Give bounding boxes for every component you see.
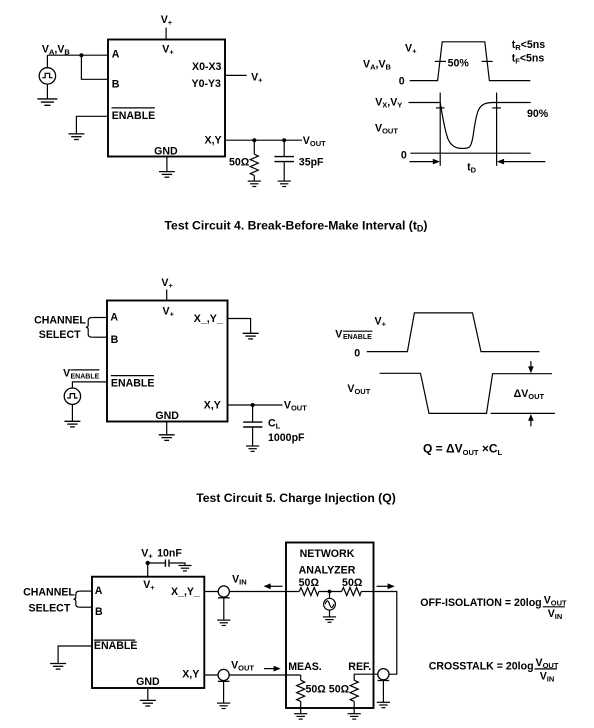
ground (source) bbox=[64, 421, 80, 427]
brace channel select bbox=[86, 318, 93, 338]
svg-text:SELECT: SELECT bbox=[39, 329, 81, 341]
delta arrow up bbox=[530, 420, 532, 426]
wire brace to pin B bbox=[92, 336, 107, 338]
VOUT waveform bbox=[380, 373, 552, 413]
wire V+ to box top bbox=[165, 28, 167, 40]
network analyzer box bbox=[286, 543, 374, 709]
svg-text:VOUT: VOUT bbox=[544, 594, 567, 607]
svg-text:B: B bbox=[112, 78, 120, 90]
svg-text:X,Y: X,Y bbox=[205, 135, 222, 147]
svg-text:ENABLE: ENABLE bbox=[71, 373, 100, 380]
wire GND pin bbox=[166, 422, 168, 435]
connector VOUT bbox=[218, 669, 230, 681]
input pulse waveform bbox=[410, 42, 531, 81]
signal arrow left bbox=[270, 585, 283, 587]
junction dot 35pF tap bbox=[282, 138, 286, 142]
ground (ENABLE) bbox=[50, 664, 66, 670]
svg-text:X_,Y_: X_,Y_ bbox=[194, 313, 223, 325]
ground (35pF) bbox=[278, 181, 291, 186]
wire GND pin bbox=[147, 688, 149, 700]
wire analyzer out to REF conn bbox=[374, 592, 397, 675]
svg-text:ENABLE: ENABLE bbox=[94, 640, 138, 652]
svg-text:VIN: VIN bbox=[232, 573, 247, 586]
pulse source V1 bbox=[46, 55, 48, 67]
wire junction to pin B bbox=[81, 55, 108, 79]
wire X_,Y_ pin to ground bbox=[228, 319, 251, 334]
svg-text:V+: V+ bbox=[251, 71, 263, 84]
svg-text:tD: tD bbox=[467, 161, 477, 174]
svg-text:0: 0 bbox=[354, 348, 360, 360]
svg-text:50%: 50% bbox=[448, 58, 470, 70]
ground (ENABLE) bbox=[68, 134, 84, 140]
svg-text:50Ω: 50Ω bbox=[299, 577, 320, 589]
brace channel select bbox=[73, 591, 80, 607]
wire source to pin A bbox=[47, 54, 108, 56]
resistor 50ohm REF bbox=[354, 674, 378, 680]
svg-text:GND: GND bbox=[136, 676, 160, 688]
svg-text:VOUT: VOUT bbox=[347, 383, 370, 396]
ground (sine source) bbox=[323, 617, 336, 622]
svg-text:V: V bbox=[335, 328, 342, 340]
ground (source) bbox=[37, 99, 57, 105]
svg-text:90%: 90% bbox=[527, 108, 549, 120]
svg-text:OFF-ISOLATION = 20log: OFF-ISOLATION = 20log bbox=[420, 597, 541, 609]
svg-text:A: A bbox=[112, 48, 120, 60]
svg-text:VIN: VIN bbox=[548, 608, 563, 621]
output level line right bbox=[494, 102, 531, 104]
svg-text:REF.: REF. bbox=[348, 661, 371, 673]
ground (REF conn) bbox=[377, 702, 390, 707]
svg-text:VOUT: VOUT bbox=[231, 660, 254, 673]
wire V+ to box top bbox=[147, 563, 149, 577]
wire X_,Y_ pin to analyzer bbox=[204, 591, 299, 593]
svg-text:X0-X3: X0-X3 bbox=[192, 61, 222, 73]
50% tick left bbox=[435, 60, 446, 62]
ground (GND pin) bbox=[159, 435, 175, 441]
svg-text:CHANNEL: CHANNEL bbox=[23, 586, 75, 598]
svg-text:X,Y: X,Y bbox=[182, 668, 199, 680]
svg-text:VX,VY: VX,VY bbox=[375, 97, 402, 110]
VENABLE pulse waveform bbox=[367, 313, 540, 352]
ground (CL) bbox=[246, 446, 259, 451]
tD arrow right bbox=[504, 161, 546, 163]
svg-text:tF<5ns: tF<5ns bbox=[512, 52, 545, 65]
svg-text:GND: GND bbox=[154, 145, 178, 157]
svg-text:MEAS.: MEAS. bbox=[288, 661, 322, 673]
wire ENABLE pin to source bbox=[72, 382, 107, 388]
ground (50ohm) bbox=[248, 181, 261, 186]
svg-text:X_,Y_: X_,Y_ bbox=[171, 586, 200, 598]
connector REF bbox=[378, 669, 390, 681]
svg-text:V+: V+ bbox=[141, 547, 153, 560]
IC U2 box bbox=[107, 301, 228, 422]
svg-text:ENABLE: ENABLE bbox=[343, 334, 372, 341]
capacitor CL bbox=[252, 405, 254, 422]
ground (X_,Y_) bbox=[243, 333, 259, 339]
svg-text:V+: V+ bbox=[143, 579, 155, 592]
wire brace to pin A bbox=[80, 590, 92, 592]
pulse source V2 bbox=[64, 388, 80, 404]
capacitor 10nF bbox=[164, 560, 166, 567]
wire X,Y to VOUT bbox=[228, 404, 283, 406]
svg-text:X,Y: X,Y bbox=[204, 399, 221, 411]
svg-text:ΔVOUT: ΔVOUT bbox=[514, 388, 545, 401]
svg-text:Q = ΔVOUT ×CL: Q = ΔVOUT ×CL bbox=[423, 442, 503, 457]
junction dot 50ohm tap bbox=[252, 138, 256, 142]
svg-text:B: B bbox=[111, 334, 119, 346]
svg-text:V+: V+ bbox=[162, 44, 174, 57]
svg-text:50Ω: 50Ω bbox=[342, 577, 363, 589]
wire X0-X3 pin to V+ bbox=[225, 74, 247, 76]
wire right resistor to box edge bbox=[361, 591, 373, 593]
svg-text:VOUT: VOUT bbox=[375, 123, 398, 136]
wire ENABLE to ground bbox=[76, 116, 108, 133]
signal arrow right (analyzer out) bbox=[377, 585, 389, 587]
ground (REF res) bbox=[348, 714, 361, 719]
svg-text:SELECT: SELECT bbox=[29, 602, 71, 614]
sine source bbox=[329, 592, 331, 599]
wire brace to pin B bbox=[80, 606, 92, 608]
connector VIN bbox=[218, 586, 230, 598]
svg-text:tR<5ns: tR<5ns bbox=[512, 39, 546, 52]
IC U1 box bbox=[108, 40, 225, 157]
svg-text:A: A bbox=[110, 312, 118, 324]
svg-text:0: 0 bbox=[401, 150, 407, 162]
svg-text:V: V bbox=[63, 368, 70, 380]
svg-text:A: A bbox=[95, 585, 103, 597]
svg-text:V+: V+ bbox=[161, 14, 173, 27]
ground (MEAS res) bbox=[294, 714, 307, 719]
ground (VIN conn) bbox=[217, 620, 230, 625]
output dip curve bbox=[440, 103, 494, 149]
svg-text:CHANNEL: CHANNEL bbox=[34, 314, 86, 326]
junction dot source bbox=[328, 590, 332, 594]
svg-text:V+: V+ bbox=[161, 277, 173, 290]
svg-text:VOUT: VOUT bbox=[303, 135, 326, 148]
50% tick right bbox=[482, 60, 493, 62]
output level line left bbox=[409, 102, 441, 104]
svg-text:V+: V+ bbox=[163, 305, 175, 318]
svg-text:Test Circuit 4. Break-Before-M: Test Circuit 4. Break-Before-Make Interv… bbox=[165, 218, 428, 233]
svg-text:GND: GND bbox=[155, 410, 179, 422]
svg-text:CL: CL bbox=[268, 418, 281, 431]
wire ENABLE to ground bbox=[58, 646, 92, 663]
ground (10nF) bbox=[178, 566, 191, 571]
svg-text:50Ω: 50Ω bbox=[229, 156, 250, 168]
wire GND pin bbox=[166, 157, 168, 172]
svg-text:ENABLE: ENABLE bbox=[111, 377, 155, 389]
svg-text:V+: V+ bbox=[375, 315, 387, 328]
signal arrow right bbox=[264, 668, 275, 670]
ground (GND pin) bbox=[140, 700, 156, 706]
resistor 50ohm source right bbox=[342, 588, 362, 596]
svg-text:50Ω: 50Ω bbox=[329, 683, 350, 695]
svg-text:VOUT: VOUT bbox=[284, 400, 307, 413]
IC U3 box bbox=[92, 577, 204, 688]
junction dot bbox=[79, 53, 83, 57]
svg-text:1000pF: 1000pF bbox=[268, 432, 305, 444]
svg-text:V+: V+ bbox=[405, 43, 417, 56]
resistor 50ohm source left bbox=[299, 588, 319, 596]
svg-text:0: 0 bbox=[399, 75, 405, 87]
reference level line bbox=[491, 412, 555, 414]
svg-text:NETWORK: NETWORK bbox=[300, 548, 355, 560]
wire V+ to box top bbox=[166, 290, 168, 301]
resistor 50ohm bbox=[253, 140, 255, 154]
capacitor 35pF bbox=[283, 140, 285, 156]
svg-text:35pF: 35pF bbox=[299, 156, 324, 168]
wire capacitor to ground bbox=[170, 563, 185, 565]
junction dot CL tap bbox=[251, 403, 255, 407]
resistor 50ohm MEAS bbox=[300, 675, 302, 680]
svg-text:VIN: VIN bbox=[540, 671, 555, 684]
svg-text:ENABLE: ENABLE bbox=[112, 110, 156, 122]
svg-text:50Ω: 50Ω bbox=[306, 683, 327, 695]
vertical cursor line 2 bbox=[496, 93, 498, 166]
wire between resistors bbox=[319, 591, 342, 593]
junction dot V+ bbox=[146, 561, 150, 565]
wire X,Y pin to MEAS bbox=[204, 674, 300, 676]
svg-text:B: B bbox=[95, 606, 103, 618]
ground (GND pin) bbox=[159, 172, 175, 178]
90% tick on line 2 bbox=[492, 107, 501, 109]
wire brace to pin A bbox=[92, 317, 107, 319]
wire X,Y to VOUT bbox=[225, 139, 302, 141]
svg-text:VOUT: VOUT bbox=[536, 657, 559, 670]
wire V+ to capacitor bbox=[148, 562, 165, 564]
svg-text:VA,VB: VA,VB bbox=[363, 59, 392, 72]
delta arrow down bbox=[530, 361, 532, 368]
tD arrow left bbox=[410, 161, 434, 163]
ground (VOUT conn) bbox=[217, 703, 230, 708]
90% tick on line 1 bbox=[436, 107, 445, 109]
vertical cursor line 1 bbox=[439, 93, 441, 166]
svg-text:10nF: 10nF bbox=[157, 547, 182, 559]
zero baseline (wave2) bbox=[410, 152, 530, 154]
svg-text:Test Circuit 5. Charge Injecti: Test Circuit 5. Charge Injection (Q) bbox=[196, 491, 396, 505]
svg-text:ANALYZER: ANALYZER bbox=[299, 565, 356, 577]
svg-text:CROSSTALK = 20log: CROSSTALK = 20log bbox=[429, 660, 534, 672]
svg-text:Y0-Y3: Y0-Y3 bbox=[192, 78, 222, 90]
